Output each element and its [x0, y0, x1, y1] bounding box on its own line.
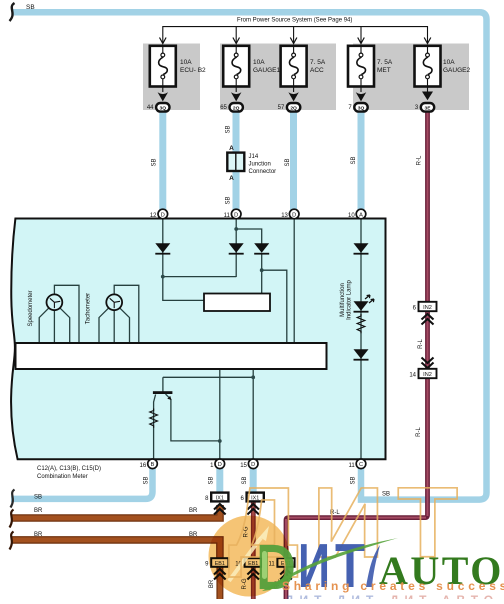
svg-text:2Q: 2Q [290, 105, 297, 111]
bus bar rectangle [16, 343, 327, 369]
wire BR below connector 9 to bottom [216, 566, 223, 599]
pin 11 C bottom [348, 459, 365, 469]
svg-text:R-L: R-L [417, 155, 423, 165]
connector oval 7 3Q [348, 103, 367, 112]
chevron below connector 9 [214, 569, 226, 580]
wire junction A right to diode2 bottom [163, 276, 236, 278]
svg-text:IN2: IN2 [423, 372, 432, 378]
diode D5 (bottom of lamp column) [354, 349, 369, 360]
transistor Q1 emitter arrow [166, 394, 171, 399]
svg-text:SB: SB [226, 196, 232, 204]
resistor in lamp column [357, 314, 365, 333]
pin 13 D [281, 209, 299, 219]
svg-text:2Q: 2Q [233, 105, 240, 111]
pin 12 D [150, 209, 168, 219]
svg-text:GAUGE2: GAUGE2 [443, 67, 470, 74]
svg-text:Tachometer: Tachometer [86, 293, 92, 324]
fuse F4 7.5A MET [348, 45, 393, 101]
svg-text:D: D [161, 212, 165, 218]
chevron above connector 14 IN2 [422, 358, 434, 369]
junction dot below diode1 [161, 275, 165, 279]
diode D4 (top of lamp column) [354, 243, 369, 254]
in-line connector 8 IX1 [205, 493, 228, 502]
svg-text:IN2: IN2 [423, 305, 432, 311]
svg-text:GAUGE1: GAUGE1 [253, 67, 280, 74]
wire SB column 3 [290, 110, 297, 211]
watermark arrow [229, 538, 261, 581]
svg-text:D: D [292, 212, 296, 218]
svg-text:From Power Source System (See: From Power Source System (See Page 94) [237, 18, 352, 24]
svg-text:A: A [229, 175, 234, 182]
svg-text:Indicator Lamp: Indicator Lamp [347, 280, 353, 320]
ground connector 9 EB1 [205, 558, 228, 567]
pin 16 B [140, 459, 158, 469]
svg-text:Multifunction: Multifunction [340, 283, 346, 317]
watermark orange circle [209, 516, 290, 597]
wire BR break symbol 2 [10, 532, 14, 550]
fuse F3 7.5A ACC [281, 45, 326, 101]
junction dot emitter-pin1 [218, 439, 222, 443]
wire SB break symbol bottom left [11, 490, 15, 508]
svg-text:Combination Meter: Combination Meter [37, 474, 88, 480]
resistor below transistor [150, 409, 158, 428]
svg-text:16: 16 [140, 463, 147, 469]
connector ovals under fuses [147, 103, 434, 112]
svg-text:BR: BR [34, 532, 43, 538]
fuse F1 10A ECU-B2 [150, 45, 206, 101]
svg-text:SB: SB [152, 158, 158, 166]
wire junction B right and down to bus bar [262, 270, 287, 343]
svg-text:C12(A), C13(B), C15(D): C12(A), C13(B), C15(D) [37, 466, 101, 472]
connector oval 57 2Q [278, 103, 301, 112]
svg-text:14: 14 [409, 373, 416, 379]
ground connector 10 EB1 [235, 558, 262, 567]
svg-text:SB: SB [351, 156, 357, 164]
svg-text:BR: BR [34, 508, 43, 514]
wire SB main loop (top band, right edge, bottom right) [12, 12, 487, 499]
svg-text:R-L: R-L [418, 339, 424, 349]
svg-text:12: 12 [150, 213, 157, 219]
speedometer right leg [60, 308, 70, 343]
junction connector J14 [227, 145, 276, 182]
connector oval 44 3Q [147, 103, 170, 112]
svg-text:A: A [359, 212, 363, 218]
wire transistor emitter to pin1 line [171, 399, 220, 441]
svg-text:J14: J14 [249, 154, 259, 160]
diode D1 [155, 243, 170, 254]
svg-text:B: B [151, 462, 155, 468]
svg-text:11: 11 [224, 213, 231, 219]
svg-text:SB: SB [285, 158, 291, 166]
svg-text:ECU- B2: ECU- B2 [180, 67, 206, 74]
speedometer left leg [39, 308, 49, 343]
wire SB pin15 to connector 6 [250, 467, 257, 493]
transistor Q1 base bar [153, 391, 173, 394]
wire bar bottom to pin1 [219, 369, 221, 460]
diode D2 [229, 243, 244, 254]
wire BR lower horizontal [11, 540, 220, 559]
chevron below connector 11 [280, 569, 292, 580]
tachometer center leg [113, 310, 115, 343]
svg-text:BR: BR [189, 532, 198, 538]
internal wires group [39, 219, 361, 460]
svg-text:10: 10 [348, 213, 355, 219]
svg-text:Junction: Junction [249, 162, 271, 168]
svg-text:10A: 10A [180, 59, 192, 66]
svg-text:ДИТ АВТО: ДИТ АВТО [390, 593, 499, 599]
in-line connector 14 IN2 [409, 369, 436, 379]
svg-text:D: D [234, 212, 238, 218]
wire SB column 4 [358, 110, 365, 211]
svg-text:65: 65 [220, 105, 227, 111]
pin 1 D [210, 459, 224, 469]
pin 11 D top [224, 209, 241, 219]
speedometer gauge circle [47, 294, 63, 310]
fuses [150, 45, 471, 101]
svg-text:ACC: ACC [310, 67, 324, 74]
fuse block gray box 1 [143, 44, 200, 111]
chevron below connector 10 [247, 569, 259, 580]
svg-text:7. 5A: 7. 5A [310, 59, 326, 66]
wire SB column 2 [233, 110, 240, 211]
svg-text:13: 13 [281, 213, 288, 219]
svg-text:SB: SB [34, 495, 42, 501]
watermark bottom cut row [285, 593, 499, 604]
svg-text:D: D [218, 462, 222, 468]
svg-text:57: 57 [278, 105, 285, 111]
ground connector 11 EB1 [268, 558, 294, 567]
wire transistor left lead through resistor to pin16 [154, 395, 156, 461]
wire SB column 1 [159, 110, 166, 211]
wire bar bottom to pin15 [252, 369, 254, 460]
wire pin10 down chain [360, 219, 362, 460]
wire R-G connector 6 to connector 10 [251, 501, 256, 559]
svg-text:Connector: Connector [249, 169, 277, 175]
svg-text:SB: SB [144, 476, 150, 484]
in-line connector 6 IX1 [241, 493, 264, 502]
svg-text:R-L: R-L [416, 427, 422, 437]
connector oval 3 3E [415, 103, 434, 112]
junction dot collector-pin15 [251, 375, 255, 379]
wire transistor collector horizontal [163, 377, 253, 392]
combination meter block body [11, 219, 385, 460]
tachometer left leg [99, 308, 109, 343]
watermark group [209, 467, 504, 604]
wire SB bottom left (pin 16 to left edge) [11, 467, 153, 499]
svg-text:SB: SB [226, 125, 232, 133]
svg-text:3Q: 3Q [358, 105, 365, 111]
svg-text:3Q: 3Q [160, 105, 167, 111]
chevron below connector 6 [247, 504, 259, 515]
in-line connector 6 IN2 [413, 302, 437, 312]
fuse block gray box 3 [353, 44, 469, 111]
LED multifunction indicator lamp [354, 295, 375, 313]
connector oval 65 2Q [220, 103, 243, 112]
tachometer hook [114, 285, 139, 343]
chevron below connector 8 [214, 504, 226, 515]
wire BR break symbol 1 [10, 510, 14, 528]
tachometer gauge circle [106, 294, 122, 310]
fuse F2 10A GAUGE1 [223, 45, 280, 101]
svg-text:44: 44 [147, 105, 154, 111]
wire SB break symbol top left [10, 3, 15, 21]
bus arrowheads [160, 38, 431, 44]
svg-text:Speedometer: Speedometer [28, 290, 34, 326]
svg-text:10A: 10A [253, 59, 265, 66]
watermark green swoosh [262, 538, 398, 591]
wire junction A down and right into resistor box [163, 277, 204, 301]
watermark blue curl [366, 545, 380, 587]
junction dot below diode3 [260, 268, 264, 272]
diode D3 [254, 243, 269, 254]
wire pin11 down to diode2 [235, 219, 237, 277]
svg-text:Sharing creates success: Sharing creates success [282, 579, 504, 593]
pin 10 A [348, 209, 366, 219]
svg-text:A: A [229, 145, 234, 152]
wire R-G below connector 10 to bottom [251, 566, 256, 599]
svg-text:IX1: IX1 [216, 496, 224, 502]
wire pin11 branch right to diode3 [236, 229, 262, 244]
fuse F5 10A GAUGE2 [415, 45, 471, 100]
svg-text:MET: MET [377, 67, 391, 74]
svg-text:3E: 3E [425, 105, 432, 111]
svg-text:BR: BR [189, 508, 198, 514]
svg-text:10A: 10A [443, 59, 455, 66]
svg-text:SB: SB [209, 476, 215, 484]
speedometer center leg [53, 310, 55, 343]
wire SB pin1 to connector 8 [216, 467, 223, 493]
svg-text:7. 5A: 7. 5A [377, 59, 393, 66]
wire diode3 to junction B [261, 253, 263, 294]
wire pin12 to diode1 to junction [162, 219, 164, 277]
speedometer hook [54, 285, 79, 343]
power source bus line [163, 27, 428, 43]
svg-text:ДИТ ДИТ: ДИТ ДИТ [285, 593, 379, 599]
fuse block gray box 2 [220, 44, 336, 111]
wire BR upper horizontal [11, 505, 220, 518]
svg-text:SB: SB [26, 4, 35, 11]
junction dot pin11 branch [234, 227, 238, 231]
wire pin13 down to bus bar [293, 219, 295, 343]
svg-text:BR: BR [209, 579, 215, 588]
chevron below connector 6 IN2 [422, 314, 434, 325]
wire R-L from fuse 5 down, elbow left, down to connector 11 [286, 111, 428, 599]
pin 15 D [240, 459, 258, 469]
internal resistor box (unlabeled) [204, 294, 270, 312]
tachometer right leg [120, 308, 130, 343]
